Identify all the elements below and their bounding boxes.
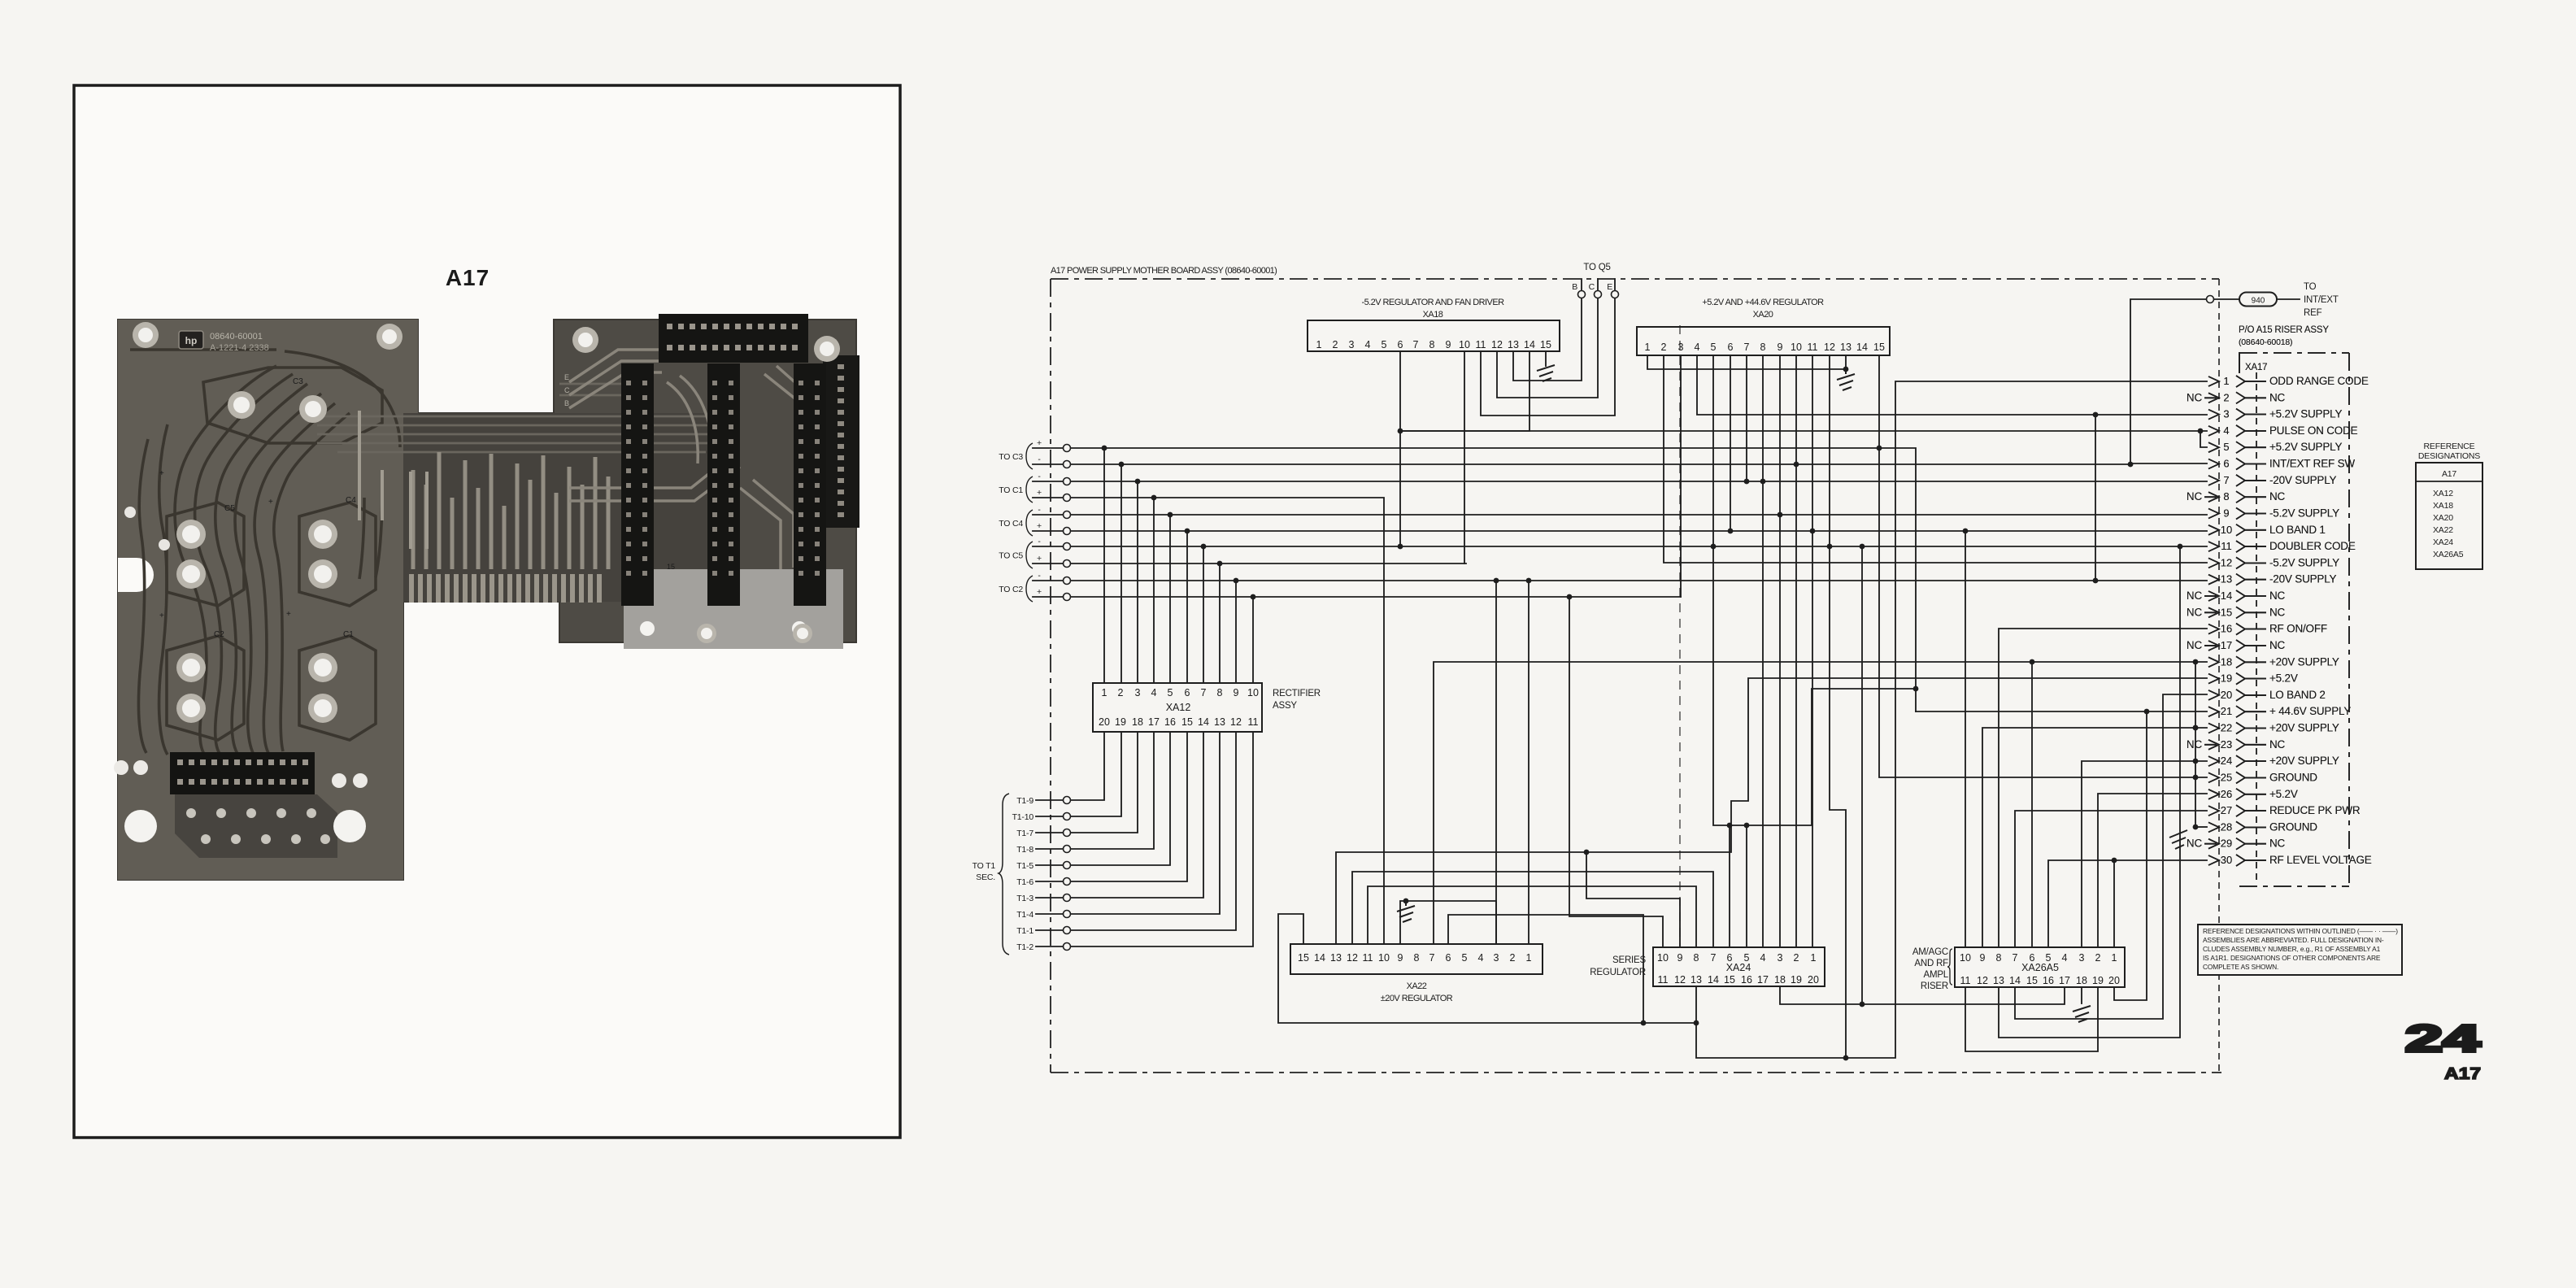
riser box left stub: [2239, 353, 2240, 372]
svg-text:A-1221-4 2338: A-1221-4 2338: [210, 343, 269, 353]
svg-text:XA20: XA20: [2433, 513, 2453, 523]
svg-text:XA12: XA12: [2433, 489, 2453, 498]
svg-text:TO T1: TO T1: [973, 861, 996, 871]
riser pin 1: [2208, 375, 2369, 387]
svg-text:C5: C5: [224, 504, 235, 513]
wire XA20 p9 to XA24 p3: [1779, 355, 1781, 947]
assembly dashed border left: [1050, 279, 1051, 1073]
connector XA17 dashed line: [2256, 372, 2257, 883]
vertical trace stubs upper middle: [359, 411, 427, 549]
svg-text:19: 19: [2092, 975, 2104, 986]
svg-text:16: 16: [1741, 974, 1752, 986]
wire XA20 p10 to XA24 p2: [1795, 355, 1797, 947]
wire 940 to INT/EXT REF: [2277, 298, 2300, 300]
svg-text:17: 17: [2221, 639, 2232, 651]
left edge notch: [118, 558, 154, 592]
riser pin 20: [2208, 689, 2326, 701]
vertical finger traces in middle arm: [413, 452, 608, 569]
svg-text:5: 5: [1711, 342, 1717, 353]
wire XA12 drop 4: [1153, 498, 1155, 683]
wire XA12 drop 3: [1137, 481, 1138, 683]
svg-text:T1-3: T1-3: [1016, 894, 1033, 903]
svg-text:14: 14: [2221, 590, 2232, 602]
svg-text:25: 25: [2221, 771, 2232, 783]
wire XA24 p13 big loop to XA22 p15: [1278, 914, 1696, 1023]
svg-text:26: 26: [2221, 788, 2232, 800]
svg-text:9: 9: [1677, 952, 1683, 964]
svg-text:17: 17: [1148, 716, 1160, 728]
svg-text:1: 1: [1811, 952, 1817, 964]
svg-text:PULSE ON CODE: PULSE ON CODE: [2269, 424, 2358, 437]
wire XA18 p10 vertical: [1464, 351, 1465, 563]
board tone variation: [118, 320, 488, 880]
svg-text:SERIES: SERIES: [1612, 955, 1647, 965]
svg-text:13: 13: [1330, 952, 1342, 964]
svg-text:+20V SUPPLY: +20V SUPPLY: [2269, 655, 2339, 668]
svg-text:-: -: [1038, 537, 1041, 546]
svg-text:XA12: XA12: [1166, 702, 1191, 713]
svg-text:T1-4: T1-4: [1016, 910, 1033, 920]
wire XA20 p13 stub: [1845, 355, 1847, 369]
wire XA26A5 p18 ground stem: [2081, 987, 2082, 1003]
svg-text:10: 10: [2221, 524, 2232, 536]
wire XA18 p15 ground stem: [1545, 351, 1547, 366]
svg-text:27: 27: [2221, 804, 2232, 816]
wire row21 +44.6V bus: [1916, 711, 2207, 712]
svg-text:19: 19: [2221, 672, 2232, 685]
svg-text:8: 8: [2223, 490, 2229, 503]
svg-text:5: 5: [2223, 441, 2229, 453]
svg-text:AM/AGC: AM/AGC: [1912, 947, 1948, 957]
svg-text:NC: NC: [2187, 838, 2203, 850]
riser pin 27: [2208, 804, 2361, 816]
svg-text:6: 6: [1185, 687, 1190, 698]
riser pin 3: [2208, 408, 2342, 420]
connector: bottom-left dual row: [170, 752, 315, 794]
svg-text:XA26A5: XA26A5: [2433, 550, 2464, 559]
svg-text:C2: C2: [214, 630, 224, 639]
svg-text:A17: A17: [446, 265, 490, 290]
svg-text:15: 15: [2026, 975, 2038, 986]
svg-text:XA17: XA17: [2245, 363, 2267, 372]
svg-text:9: 9: [2223, 507, 2229, 520]
svg-text:P/O A15 RISER ASSY: P/O A15 RISER ASSY: [2239, 325, 2329, 335]
svg-text:19: 19: [1115, 716, 1126, 728]
svg-text:18: 18: [1774, 974, 1786, 986]
svg-text:16: 16: [2043, 975, 2054, 986]
wire XA22 p11 to XA24 p8 loop: [1368, 886, 1696, 947]
svg-text:13: 13: [1690, 974, 1702, 986]
wire T1-4: [1036, 732, 1220, 914]
svg-text:+: +: [286, 610, 291, 619]
svg-text:NC: NC: [2187, 590, 2203, 602]
svg-text:-5.2V SUPPLY: -5.2V SUPPLY: [2269, 556, 2339, 568]
svg-text:28: 28: [2221, 820, 2232, 833]
wire cross vertical 2577: [2095, 415, 2096, 581]
svg-text:+: +: [159, 469, 164, 478]
riser pin 4: [2208, 424, 2358, 437]
riser box dashed right: [2348, 353, 2350, 886]
svg-text:6: 6: [1728, 342, 1734, 353]
svg-text:INT/EXT: INT/EXT: [2304, 295, 2339, 305]
wire T1-10: [1036, 732, 1121, 816]
svg-text:NC: NC: [2187, 738, 2203, 751]
riser pin 17: [2187, 639, 2286, 651]
svg-text:7: 7: [1429, 952, 1435, 964]
wire XA12 drop 9: [1235, 581, 1237, 683]
wire XA22 p1 riser: [1528, 581, 1529, 944]
svg-text:8: 8: [1996, 952, 2002, 964]
svg-text:C: C: [564, 386, 570, 394]
svg-text:AND RF: AND RF: [1914, 959, 1948, 968]
svg-text:08640-60001: 08640-60001: [210, 332, 263, 342]
riser box dashed top: [2239, 352, 2349, 354]
svg-text:NC: NC: [2269, 838, 2286, 850]
ground at XA26A5 p18: [2073, 1006, 2091, 1022]
svg-text:-5.2V SUPPLY: -5.2V SUPPLY: [2269, 507, 2339, 520]
node B stub: [1581, 279, 1582, 290]
svg-text:12: 12: [1347, 952, 1358, 964]
svg-text:2: 2: [2095, 952, 2101, 964]
wire row C1+ to XA22 p10: [1033, 498, 1384, 944]
svg-text:9: 9: [1778, 342, 1783, 353]
svg-text:6: 6: [1446, 952, 1451, 964]
svg-text:DOUBLER CODE: DOUBLER CODE: [2269, 540, 2356, 552]
svg-text:10: 10: [1247, 687, 1259, 698]
riser pin 12: [2208, 556, 2339, 568]
svg-text:+5.2V: +5.2V: [2269, 788, 2298, 800]
riser pin 6: [2208, 458, 2355, 470]
node C stub: [1597, 279, 1599, 290]
riser pin 30: [2208, 854, 2372, 866]
svg-text:5: 5: [1168, 687, 1173, 698]
svg-text:-20V SUPPLY: -20V SUPPLY: [2269, 573, 2337, 585]
wire XA20 p1 ground loop: [1647, 355, 1846, 369]
riser pin 30: [2208, 854, 2372, 866]
svg-text:T1-2: T1-2: [1016, 942, 1033, 952]
svg-text:REFERENCE DESIGNATIONS WITHIN: REFERENCE DESIGNATIONS WITHIN OUTLINED (…: [2203, 927, 2398, 935]
riser pin 7: [2208, 474, 2337, 486]
wire XA20 p7: [1746, 355, 1747, 481]
svg-text:10: 10: [1378, 952, 1390, 964]
svg-text:T1-6: T1-6: [1016, 877, 1033, 887]
svg-text:11: 11: [1476, 339, 1486, 350]
wire XA26A5 p1 top stub: [2113, 860, 2115, 947]
ground at bus B: [2169, 830, 2187, 849]
svg-text:15: 15: [1298, 952, 1309, 964]
riser pin 28: [2208, 820, 2317, 833]
svg-text:-: -: [1038, 505, 1041, 515]
wire cross vertical 2290: [1861, 546, 1863, 1004]
svg-text:7: 7: [1711, 952, 1717, 964]
svg-text:+5.2V: +5.2V: [2269, 672, 2298, 685]
svg-text:+5.2V SUPPLY: +5.2V SUPPLY: [2269, 408, 2342, 420]
svg-text:-5.2V REGULATOR AND FAN DRIVER: -5.2V REGULATOR AND FAN DRIVER: [1361, 298, 1504, 307]
connector XA22: [1290, 944, 1543, 974]
svg-text:9: 9: [1398, 952, 1403, 964]
svg-text:8: 8: [1414, 952, 1420, 964]
connector XA18: [1308, 320, 1560, 351]
wire XA26A5 p6 riser: [2031, 662, 2033, 947]
ground at XA22: [1397, 901, 1415, 922]
wire row19 staircase from XA22 p13: [1336, 678, 2207, 944]
wire row C2+: [1033, 596, 1681, 598]
svg-text:NC: NC: [2269, 738, 2286, 751]
svg-text:TO C5: TO C5: [999, 551, 1023, 561]
riser pin 26: [2208, 788, 2298, 800]
riser pin 25: [2208, 771, 2317, 783]
svg-text:C3: C3: [293, 377, 303, 386]
svg-text:11: 11: [1248, 716, 1259, 728]
assembly dashed border bottom: [1051, 1072, 2221, 1073]
riser pin 13: [2208, 573, 2337, 585]
svg-text:1: 1: [1645, 342, 1651, 353]
svg-text:1: 1: [2112, 952, 2117, 964]
svg-text:15: 15: [1181, 716, 1193, 728]
svg-text:+: +: [1037, 438, 1042, 448]
wire to 940 oval: [2214, 298, 2239, 300]
svg-text:XA26A5: XA26A5: [2021, 962, 2059, 973]
wire XA20 p8 to XA24 p4: [1762, 355, 1764, 947]
svg-text:11: 11: [1960, 975, 1971, 986]
svg-text:4: 4: [1365, 339, 1371, 350]
svg-text:NC: NC: [2187, 490, 2203, 503]
svg-text:3: 3: [2079, 952, 2085, 964]
svg-text:NC: NC: [2187, 391, 2203, 403]
svg-text:-20V SUPPLY: -20V SUPPLY: [2269, 474, 2337, 486]
svg-text:ASSEMBLIES ARE ABBREVIATED. F: ASSEMBLIES ARE ABBREVIATED. FULL DESIGNA…: [2203, 936, 2384, 944]
wire row22 from XA26A5 p9: [1982, 728, 2207, 947]
riser pin 19: [2208, 672, 2298, 685]
svg-text:+20V SUPPLY: +20V SUPPLY: [2269, 722, 2339, 734]
svg-text:TO Q5: TO Q5: [1583, 263, 1610, 272]
svg-text:C: C: [1589, 282, 1595, 292]
wire row27 from XA26A5 p7: [2015, 811, 2207, 947]
riser pin 3: [2208, 408, 2342, 420]
svg-text:12: 12: [1824, 342, 1835, 353]
svg-text:RECTIFIER: RECTIFIER: [1273, 689, 1321, 698]
wire C2+ loop to XA24 p10: [1569, 597, 1663, 947]
wire XA12 drop 5: [1169, 515, 1171, 683]
svg-text:4: 4: [1695, 342, 1700, 353]
svg-text:4: 4: [2062, 952, 2068, 964]
riser pin 26: [2208, 788, 2298, 800]
connector XA17 dashed line: [2256, 372, 2257, 883]
riser pin 7: [2208, 474, 2337, 486]
wire row26 from XA26A5 p2: [2098, 794, 2207, 947]
svg-text:940: 940: [2252, 297, 2265, 306]
riser pin 14: [2187, 590, 2286, 602]
riser pin 13: [2208, 573, 2337, 585]
riser pin 11: [2208, 540, 2356, 552]
svg-text:+ 44.6V SUPPLY: + 44.6V SUPPLY: [2269, 705, 2351, 717]
svg-text:10: 10: [1459, 339, 1470, 350]
svg-text:10: 10: [1657, 952, 1669, 964]
wire XA12 drop 10: [1252, 597, 1254, 683]
wire row24 from XA26A5 p3: [2082, 761, 2207, 947]
riser pin 27: [2208, 804, 2361, 816]
riser pin 28: [2208, 820, 2317, 833]
riser pin 25: [2208, 771, 2317, 783]
svg-text:XA20: XA20: [1753, 310, 1773, 320]
svg-text:13: 13: [2221, 573, 2232, 585]
PCB board body: [118, 320, 856, 880]
svg-text:14: 14: [1856, 342, 1868, 353]
svg-text:22: 22: [2221, 722, 2232, 734]
svg-text:2: 2: [1118, 687, 1124, 698]
wire XA20 p12 jog down: [1830, 355, 1846, 1058]
svg-text:LO BAND 2: LO BAND 2: [2269, 689, 2326, 701]
svg-text:8: 8: [1760, 342, 1766, 353]
svg-text:+: +: [268, 498, 273, 507]
riser pin 10: [2208, 524, 2326, 536]
svg-text:16: 16: [1164, 716, 1176, 728]
riser pin 20: [2208, 689, 2326, 701]
svg-text:2: 2: [1661, 342, 1667, 353]
riser pin 21: [2208, 705, 2351, 717]
svg-text:+20V SUPPLY: +20V SUPPLY: [2269, 755, 2339, 767]
wire row C4- to pin9: [1033, 514, 2207, 516]
riser pin 2: [2187, 391, 2286, 403]
ground at XA18 p15: [1537, 365, 1555, 381]
svg-text:+: +: [159, 611, 164, 620]
svg-text:1: 1: [1102, 687, 1107, 698]
svg-text:20: 20: [1099, 716, 1110, 728]
svg-text:+: +: [1037, 488, 1042, 498]
riser pin 15: [2187, 606, 2286, 618]
svg-text:3: 3: [1349, 339, 1355, 350]
HP logo and part number silk: [179, 331, 203, 349]
riser pin 12: [2208, 556, 2339, 568]
svg-text:11: 11: [2221, 540, 2232, 552]
wire XA24 p5 riser: [1746, 825, 1747, 947]
svg-text:XA22: XA22: [1407, 981, 1427, 991]
svg-text:TO C3: TO C3: [999, 452, 1023, 462]
svg-text:15: 15: [1724, 974, 1735, 986]
svg-text:15: 15: [2221, 606, 2232, 618]
riser pin 4: [2208, 424, 2358, 437]
svg-text:REGULATOR: REGULATOR: [1590, 968, 1646, 977]
wire XA22 p9-p2 ground loop: [1400, 901, 1496, 944]
svg-text:C4: C4: [346, 496, 356, 505]
riser pin 1: [2208, 375, 2369, 387]
wire XA24 p6 stub: [1729, 825, 1730, 947]
svg-text:A17: A17: [2442, 469, 2456, 479]
wire row18 +20V bus from XA22 p7: [1434, 662, 2207, 944]
wire pulse on code bus to pin4: [1400, 430, 2207, 432]
svg-text:4: 4: [2223, 424, 2229, 437]
svg-text:7: 7: [1201, 687, 1207, 698]
svg-text:IS A1R1. DESIGNATIONS OF OTHE: IS A1R1. DESIGNATIONS OF OTHER COMPONENT…: [2203, 954, 2381, 962]
svg-text:6: 6: [1398, 339, 1403, 350]
node E stub: [1614, 279, 1616, 290]
svg-text:E: E: [564, 373, 569, 381]
svg-text:RF LEVEL VOLTAGE: RF LEVEL VOLTAGE: [2269, 854, 2372, 866]
svg-text:4: 4: [1151, 687, 1157, 698]
wire XA26A5 p10 riser: [1965, 531, 1966, 947]
svg-text:1: 1: [1526, 952, 1532, 964]
riser pin 9: [2208, 507, 2339, 520]
svg-text:(08640-60018): (08640-60018): [2239, 337, 2292, 347]
wire row C3+: [1033, 448, 1916, 711]
wire row C5+ to pin12: [1033, 563, 1466, 564]
riser pin 29: [2187, 838, 2286, 850]
wire row C2- to pin13: [1033, 580, 2207, 581]
svg-text:NC: NC: [2269, 590, 2286, 602]
wire XA22 p3 riser: [1495, 581, 1497, 944]
svg-text:NC: NC: [2269, 606, 2286, 618]
svg-text:14: 14: [1708, 974, 1719, 986]
riser pin 10: [2208, 524, 2326, 536]
wire row C4+ to pin10: [1033, 530, 2207, 532]
connector: inner vertical 2: [707, 363, 740, 606]
riser pin 14: [2187, 590, 2286, 602]
wire XA12 drop 2: [1120, 464, 1122, 683]
riser box dashed bottom: [2239, 885, 2349, 887]
svg-text:+5.2V SUPPLY: +5.2V SUPPLY: [2269, 441, 2342, 453]
wire doubler loop XA26A5 p13: [1999, 546, 2180, 1038]
svg-text:TO C1: TO C1: [999, 485, 1023, 495]
svg-text:11: 11: [1658, 974, 1669, 986]
svg-text:20: 20: [1808, 974, 1819, 986]
svg-text:T1-1: T1-1: [1016, 926, 1033, 936]
wire XA20 p6: [1730, 355, 1731, 531]
svg-text:16: 16: [2221, 623, 2232, 635]
riser pin 15: [2187, 606, 2286, 618]
riser pin 8: [2187, 490, 2286, 503]
svg-text:REDUCE PK PWR: REDUCE PK PWR: [2269, 804, 2361, 816]
mounting holes with pads: [114, 322, 840, 842]
svg-text:TO C4: TO C4: [999, 519, 1023, 529]
svg-text:5: 5: [1382, 339, 1387, 350]
svg-text:20: 20: [2108, 975, 2120, 986]
svg-text:10: 10: [1960, 952, 1971, 964]
photo frame border: [74, 85, 900, 1138]
riser pin 11: [2208, 540, 2356, 552]
riser pin 18: [2208, 655, 2339, 668]
svg-text:-: -: [1038, 455, 1041, 464]
scan crease line: [1679, 325, 1681, 946]
svg-text:T1-7: T1-7: [1016, 829, 1033, 838]
svg-text:hp: hp: [185, 335, 198, 346]
svg-text:7: 7: [1744, 342, 1750, 353]
wire XA20 p15 ground run to pin25: [1879, 355, 2207, 777]
wire XA20 p3 +5.2V bus to pin3: [1697, 355, 2207, 415]
svg-text:2: 2: [1510, 952, 1516, 964]
svg-text:T1-5: T1-5: [1016, 861, 1033, 871]
reference designations table: [2416, 463, 2482, 569]
svg-text:TO: TO: [2304, 282, 2317, 292]
connector: inner vertical 3: [794, 363, 826, 606]
svg-text:20: 20: [2221, 689, 2232, 701]
wire T1-7: [1036, 732, 1138, 833]
wire T1-6: [1036, 732, 1187, 881]
wire row C3- to 940 node: [1033, 463, 2130, 465]
svg-text:4: 4: [1478, 952, 1484, 964]
wire +20V/ground bus: [2195, 662, 2196, 828]
svg-text:DESIGNATIONS: DESIGNATIONS: [2418, 451, 2480, 461]
svg-text:17: 17: [1757, 974, 1769, 986]
svg-text:8: 8: [1217, 687, 1223, 698]
wire XA12 drop 8: [1219, 563, 1221, 683]
svg-text:RISER: RISER: [1921, 981, 1948, 991]
svg-text:3: 3: [1678, 342, 1684, 353]
svg-text:REFERENCE: REFERENCE: [2424, 442, 2475, 451]
svg-text:6: 6: [2223, 458, 2229, 470]
svg-text:XA24: XA24: [2433, 537, 2453, 547]
svg-text:+: +: [1037, 587, 1042, 597]
svg-text:GROUND: GROUND: [2269, 820, 2317, 833]
